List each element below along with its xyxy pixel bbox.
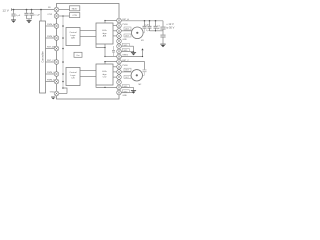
- pin BST_B: [117, 49, 122, 54]
- ground: [11, 20, 16, 23]
- wire motor right stub: [143, 32, 144, 34]
- label box GND_D: [122, 90, 129, 93]
- pin GND_C: [117, 80, 122, 85]
- internal bus wire: [62, 16, 64, 88]
- label box GND_A: [122, 43, 129, 46]
- pin RST_AB: [54, 46, 59, 51]
- wire logic1 to hbridge1 a: [80, 30, 96, 32]
- bulk capacitor C6: [162, 21, 164, 27]
- svg-text:1 µF: 1 µF: [16, 15, 21, 17]
- svg-text:GND: GND: [123, 50, 128, 52]
- IC outline U1: [57, 4, 120, 100]
- wire hbridge2 out: [113, 76, 117, 78]
- junction: [62, 81, 64, 83]
- bulk capacitor C7: [160, 35, 165, 37]
- svg-text:PVDD: PVDD: [122, 24, 128, 26]
- wire SD to pullup: [59, 9, 70, 11]
- wire VREG: [121, 50, 142, 56]
- terminal: [10, 8, 12, 11]
- svg-text:0.1 µF: 0.1 µF: [34, 14, 41, 16]
- wire OUT_C to motor: [121, 71, 131, 73]
- label box OUTB: [124, 34, 131, 37]
- svg-text:+ 12 V: + 12 V: [166, 22, 174, 26]
- wire hbridge1 out: [113, 35, 117, 37]
- pin RST_CD: [54, 60, 59, 65]
- wire GVDD rail: [11, 9, 54, 11]
- label box OUTD: [124, 75, 131, 78]
- wire PWM_B: [46, 37, 55, 39]
- resistor pullup SD: [70, 6, 80, 11]
- motor M2: [131, 70, 142, 81]
- label box OUTC: [124, 68, 131, 71]
- wire hbridge1 out: [113, 25, 117, 27]
- junction: [62, 37, 64, 39]
- pin BST_A: [117, 18, 122, 23]
- net arrow: [141, 48, 143, 50]
- capacitor C4: [149, 21, 151, 26]
- junction: [155, 20, 157, 22]
- control logic 1: [66, 28, 80, 46]
- label box OUTA: [124, 27, 131, 30]
- svg-text:PVDD: PVDD: [122, 65, 128, 67]
- label box GND_B: [122, 49, 129, 52]
- wire gnd1 b: [121, 50, 133, 52]
- svg-text:idge: idge: [102, 74, 107, 76]
- junction: [26, 9, 28, 11]
- wire RST_CD: [46, 61, 55, 63]
- pin OUT_A: [117, 29, 122, 34]
- svg-text:Controller: Controller: [41, 51, 45, 62]
- svg-text:VREG: VREG: [122, 55, 128, 57]
- capacitor C2: [26, 10, 28, 13]
- svg-text:OTW: OTW: [72, 15, 77, 17]
- svg-text:Osc: Osc: [76, 55, 80, 57]
- svg-text:OTW: OTW: [47, 14, 52, 16]
- svg-text:Control: Control: [69, 31, 77, 34]
- svg-text:BST_C: BST_C: [122, 60, 129, 62]
- bootstrap cap 2 wire: [121, 62, 144, 70]
- wire small branch: [113, 46, 115, 50]
- svg-text:H-Br: H-Br: [102, 29, 107, 32]
- wire bst2 top: [105, 62, 117, 64]
- wire hbridge2 out: [113, 71, 117, 73]
- svg-text:Control: Control: [69, 71, 77, 74]
- wire AGND stub: [59, 93, 67, 95]
- pin OUT_D: [117, 75, 122, 80]
- wire PWM_C: [46, 73, 55, 75]
- capacitor C1: [13, 10, 15, 14]
- pin PVDD_C: [117, 65, 122, 70]
- pin PWM_C: [54, 72, 59, 77]
- wire cap common: [150, 30, 164, 32]
- svg-text:12 V: 12 V: [2, 9, 9, 13]
- capacitor C3: [31, 10, 33, 13]
- resistor pullup OTW: [70, 13, 80, 18]
- pin OUT_B: [117, 34, 122, 39]
- wire bst1 top: [105, 21, 117, 24]
- svg-text:Logic: Logic: [70, 35, 76, 37]
- wire hbridge2 out: [113, 66, 117, 68]
- svg-text:to 50 V: to 50 V: [166, 26, 174, 30]
- pin PVDD_A: [117, 23, 122, 28]
- H-bridge A/B U1a: [96, 23, 113, 44]
- svg-text:Logic: Logic: [70, 75, 76, 77]
- H-bridge C/D U1b: [96, 64, 113, 85]
- wire hbridge1 out: [113, 30, 117, 32]
- svg-text:C/D: C/D: [71, 78, 75, 80]
- svg-text:GND: GND: [123, 45, 128, 47]
- bootstrap cap 1: [144, 21, 146, 26]
- pin OUT_C: [117, 70, 122, 75]
- wire OUT_A to motor: [121, 30, 132, 32]
- pin BST_C: [117, 59, 122, 64]
- wire hbridge2 hook: [96, 85, 117, 87]
- ground: [131, 91, 136, 94]
- junction: [62, 61, 64, 63]
- pin SD: [54, 7, 59, 12]
- pin GND_D: [117, 85, 122, 90]
- pin VDD: [117, 90, 122, 95]
- label box GND_C: [122, 85, 129, 88]
- wire hbridge1 hook: [96, 44, 105, 48]
- svg-text:A/B: A/B: [103, 35, 107, 38]
- pin AGND: [54, 91, 59, 96]
- motor M1: [132, 27, 144, 39]
- junction: [13, 9, 15, 11]
- wire gnd1 a: [121, 45, 133, 47]
- svg-text:GND: GND: [122, 95, 127, 97]
- pin GND_A: [117, 39, 122, 44]
- oscillator box: [74, 52, 82, 57]
- pin PWM_A: [54, 24, 59, 29]
- svg-text:GND: GND: [123, 86, 128, 88]
- wire cap commons: [27, 18, 32, 20]
- junction: [62, 87, 64, 89]
- ground: [51, 97, 55, 99]
- control logic 2: [66, 68, 80, 86]
- svg-text:A/B: A/B: [71, 37, 75, 40]
- pin VREG: [117, 54, 122, 59]
- wire gnd2 b: [121, 92, 133, 94]
- junction: [144, 20, 146, 22]
- bootstrap cap 2: [143, 70, 147, 72]
- wire logic2 to hbridge2 a: [80, 70, 96, 72]
- pin OTW: [54, 14, 59, 19]
- wire gnd2 a: [121, 86, 133, 88]
- pin PWM_D: [54, 79, 59, 84]
- junction: [31, 9, 33, 11]
- junction: [62, 15, 64, 17]
- svg-text:C/D: C/D: [103, 77, 107, 79]
- svg-text:idge: idge: [102, 33, 107, 35]
- wire PWM_A: [46, 25, 55, 27]
- junction: [62, 48, 64, 50]
- svg-text:H-Br: H-Br: [102, 70, 107, 73]
- junction: [62, 73, 64, 75]
- wire OTW to pullup: [59, 15, 70, 17]
- svg-text:GND: GND: [122, 39, 127, 41]
- wire hbridge1 bottom: [104, 44, 106, 57]
- svg-text:BST_A: BST_A: [122, 18, 129, 21]
- pin GND_B: [117, 44, 122, 49]
- wire PVDD rail: [121, 20, 163, 22]
- ground: [160, 44, 165, 47]
- ground: [27, 20, 32, 23]
- junction: [62, 25, 64, 27]
- wire RST_AB: [46, 48, 55, 50]
- controller box: [40, 21, 46, 93]
- svg-text:FAULT: FAULT: [72, 7, 79, 10]
- svg-text:GND: GND: [123, 91, 128, 93]
- wire PWM_D: [46, 81, 55, 83]
- wire logic1 to hbridge1 b: [80, 36, 96, 38]
- capacitor C5: [155, 21, 157, 26]
- junction: [149, 20, 151, 22]
- pin PWM_B: [54, 36, 59, 41]
- wire controller supply: [40, 9, 42, 11]
- ground: [131, 52, 136, 55]
- svg-text:M2: M2: [139, 84, 143, 86]
- svg-text:SD: SD: [48, 7, 51, 9]
- wire bus to agnd: [63, 88, 67, 94]
- wire logic2 to hbridge2 b: [80, 76, 96, 78]
- svg-text:µF: µF: [157, 28, 160, 30]
- svg-text:M1: M1: [141, 40, 145, 42]
